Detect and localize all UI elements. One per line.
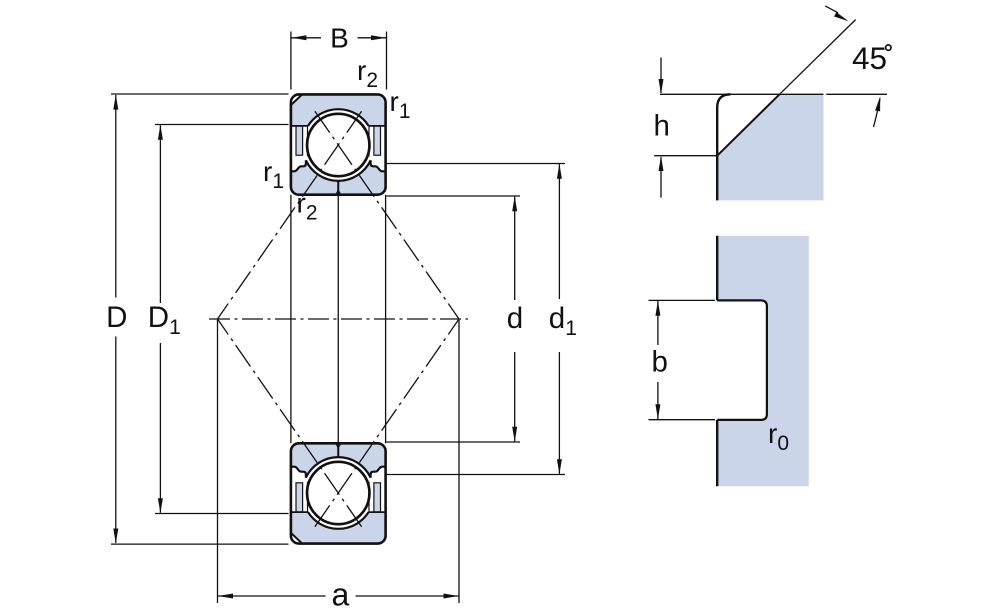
svg-text:a: a	[332, 576, 350, 611]
d1 arrow down	[557, 459, 562, 474]
B dimension line	[291, 37, 387, 39]
B arrow left	[291, 35, 306, 40]
svg-text:45: 45	[852, 40, 887, 76]
svg-text:b: b	[652, 346, 668, 379]
d dimension line	[514, 197, 516, 442]
d extension lines	[386, 196, 520, 442]
D1 arrow down	[158, 498, 163, 513]
h arrow down	[659, 79, 664, 94]
d1 dimension line	[558, 164, 560, 474]
chamfer detail rounded actual corner	[717, 94, 730, 200]
bottom bearing section (mirrored)	[218, 319, 460, 544]
a extension lines	[218, 320, 460, 603]
svg-text:B: B	[330, 23, 349, 54]
45deg leader line collinear with chamfer	[780, 20, 856, 95]
B arrow right	[371, 35, 386, 40]
45deg leader arrow line	[825, 6, 838, 13]
D extension lines	[111, 94, 289, 544]
D arrow up	[113, 95, 118, 110]
h dimension stubs	[660, 58, 662, 198]
chamfer detail top edge	[726, 93, 824, 95]
h extension lines	[654, 94, 728, 155]
d arrow down	[512, 427, 517, 442]
a arrow right	[444, 594, 459, 599]
D1 arrow up	[158, 125, 163, 140]
svg-text:D: D	[106, 301, 127, 334]
45deg horizontal reference line	[826, 93, 887, 95]
b extension lines	[649, 300, 716, 419]
chamfer 45 degree line	[717, 94, 779, 155]
svg-text:h: h	[654, 109, 670, 142]
a dimension line	[218, 595, 460, 597]
h arrow up	[659, 156, 664, 171]
D dimension line	[115, 95, 117, 543]
groove detail block fill	[717, 236, 809, 487]
chamfer detail block fill	[717, 94, 823, 200]
d1 extension lines	[386, 164, 565, 475]
a arrow left	[218, 594, 233, 599]
d1 arrow up	[557, 164, 562, 179]
45deg arrow onto horizontal line	[874, 99, 881, 128]
D1 extension lines	[155, 125, 289, 514]
D1 dimension line	[159, 125, 161, 513]
45deg arrow onto chamfer line	[834, 12, 848, 21]
groove detail left edges	[716, 236, 718, 487]
b dimension line	[657, 301, 659, 419]
top bearing section	[218, 94, 460, 319]
b arrow down	[655, 404, 660, 419]
D arrow down	[113, 529, 118, 544]
svg-text:d: d	[507, 302, 523, 335]
groove outline	[717, 300, 767, 420]
b arrow up	[655, 301, 660, 316]
B extension lines	[291, 32, 387, 90]
d arrow up	[512, 196, 517, 211]
bearing axis center line	[209, 318, 468, 320]
